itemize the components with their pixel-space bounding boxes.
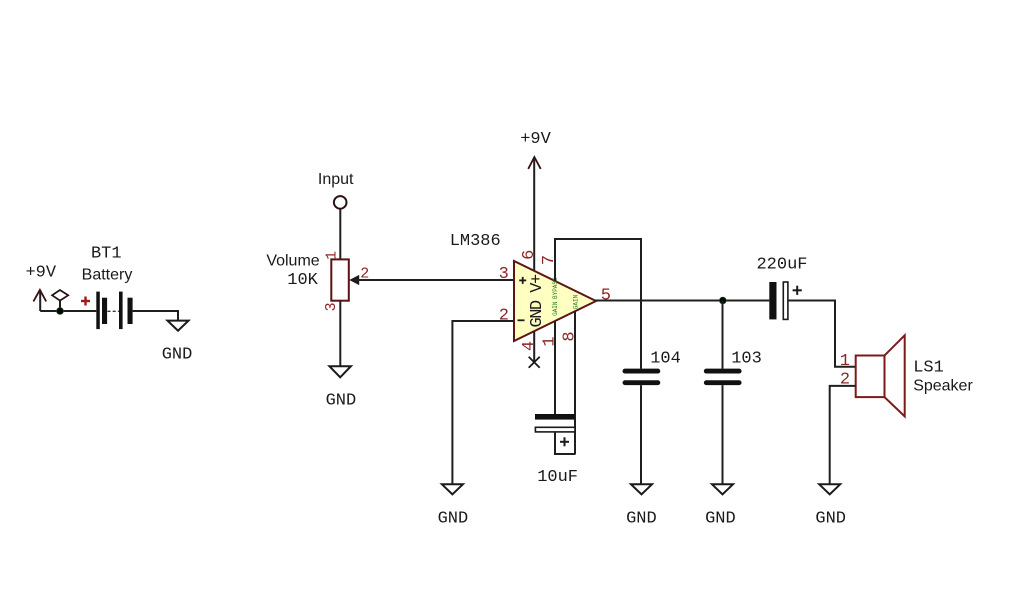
svg-text:1: 1 [840, 352, 850, 371]
svg-text:GND: GND [162, 346, 193, 365]
wire 103 to ground [722, 385, 724, 484]
wire speaker pin 2 to ground [830, 386, 856, 484]
capacitor 220uF polarized [769, 282, 802, 319]
svg-text:+9V: +9V [25, 263, 56, 282]
svg-text:GND V+: GND V+ [528, 274, 547, 328]
power flag diamond [52, 290, 68, 311]
wire +9V to pin 6 [533, 157, 535, 271]
wire pin 8 to cap [574, 311, 576, 455]
ground speaker [815, 484, 846, 528]
svg-text:+9V: +9V [520, 130, 551, 149]
speaker LS1 body [856, 335, 905, 416]
svg-text:GAIN: GAIN [572, 294, 579, 309]
svg-text:1: 1 [323, 251, 340, 260]
potentiometer RV1 body 10K [331, 259, 349, 300]
wire 220uF to speaker pin 1 [788, 301, 856, 367]
plus input marker [519, 277, 526, 284]
wire input to pot [339, 209, 341, 260]
svg-text:4: 4 [520, 341, 539, 351]
wire pin 2 to ground [452, 321, 514, 484]
ground pin2 [438, 484, 469, 528]
wire +9V to battery [40, 310, 96, 312]
wire 104 to ground [640, 385, 642, 484]
no-connect X pin 4 [529, 357, 540, 368]
svg-text:GND: GND [626, 509, 657, 528]
ground 103 [705, 484, 736, 528]
pin 4 stub [533, 331, 535, 362]
svg-text:3: 3 [323, 302, 340, 311]
wire output to 103 [722, 301, 724, 369]
svg-text:2: 2 [499, 306, 509, 325]
wire pot to ground [339, 301, 341, 367]
svg-text:3: 3 [499, 265, 509, 284]
junction dot battery node [57, 308, 64, 315]
ground pot [326, 366, 357, 410]
svg-text:GND: GND [326, 392, 357, 411]
capacitor C 10uF electrolytic [535, 414, 575, 454]
capacitor 104 [625, 371, 658, 383]
wire wiper to U1 pin3 [355, 279, 514, 281]
svg-text:8: 8 [561, 331, 580, 341]
wire pin 1 to cap [554, 321, 556, 414]
svg-text:GAIN: GAIN [552, 301, 559, 316]
svg-text:5: 5 [601, 286, 611, 305]
svg-text:BT1: BT1 [91, 244, 122, 263]
wire pin 7 bypass feedback [555, 239, 641, 369]
power symbol +9V (battery rail) [25, 263, 56, 311]
svg-text:Speaker: Speaker [913, 378, 973, 395]
op-amp U1 LM386 body [514, 261, 596, 341]
svg-text:GND: GND [815, 509, 846, 528]
svg-text:6: 6 [520, 250, 539, 260]
svg-text:7: 7 [540, 255, 559, 265]
svg-text:Input: Input [318, 171, 354, 188]
svg-text:10K: 10K [287, 271, 318, 290]
svg-text:220uF: 220uF [756, 256, 807, 275]
capacitor 103 [706, 371, 739, 383]
junction dot output node [719, 297, 726, 304]
svg-text:GND: GND [438, 509, 469, 528]
svg-text:LM386: LM386 [450, 232, 501, 251]
ground battery [162, 321, 193, 365]
input open circle [334, 196, 347, 209]
svg-text:GND: GND [705, 509, 736, 528]
pot wiper arrow [349, 275, 359, 285]
power symbol +9V (op-amp) [520, 130, 551, 169]
svg-text:104: 104 [650, 350, 681, 369]
battery BT1 [96, 292, 132, 330]
svg-text:1: 1 [540, 336, 559, 346]
ground 104 [626, 484, 657, 528]
wire battery to gnd [133, 311, 178, 321]
wire pin 5 output [595, 300, 769, 302]
svg-text:LS1: LS1 [913, 359, 944, 378]
svg-text:Volume: Volume [266, 252, 319, 269]
minus input marker [518, 319, 525, 321]
svg-text:103: 103 [731, 350, 762, 369]
svg-text:10uF: 10uF [537, 468, 578, 487]
battery plus marker [81, 297, 90, 306]
svg-text:Battery: Battery [82, 266, 133, 283]
